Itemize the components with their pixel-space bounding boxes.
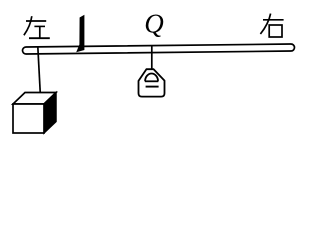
cube weight: front face — [13, 104, 44, 133]
wire: string at Q from lever to hook weight — [151, 46, 153, 74]
lever rod — [22, 44, 294, 54]
hook weight: arch chord line — [145, 80, 158, 82]
wire: left string from lever to cube — [38, 47, 41, 98]
label 左 (left) drawn as strokes — [24, 16, 50, 38]
svg-text:Q: Q — [144, 9, 164, 39]
hook weight body — [139, 69, 165, 96]
cube weight: top face — [13, 93, 56, 105]
hook weight: hook hole arch — [145, 73, 158, 81]
fulcrum knife-edge blade — [76, 15, 84, 53]
hook weight: groove line — [146, 86, 159, 88]
cube weight: right face (dark) — [44, 93, 56, 134]
label 右 (right) drawn as strokes — [260, 14, 283, 37]
